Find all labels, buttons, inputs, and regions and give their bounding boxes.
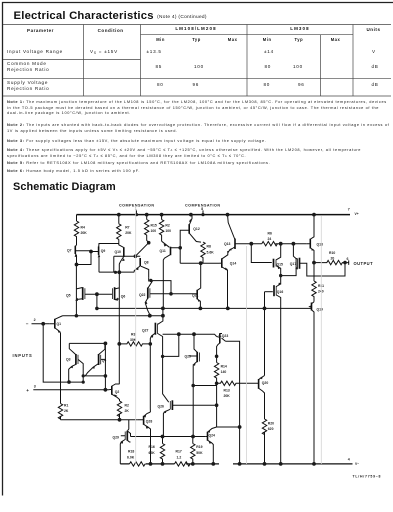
resistor R3 (119, 333, 150, 347)
svg-text:1.2: 1.2 (177, 455, 182, 459)
svg-text:R18: R18 (128, 450, 134, 454)
wire Q18 emitter node to R10 (314, 262, 321, 264)
svg-text:20K: 20K (224, 394, 231, 398)
svg-text:620: 620 (268, 427, 274, 431)
junctions mid distribution wire (161, 332, 196, 387)
compensation label 2 (185, 203, 220, 207)
resistor R7 (117, 215, 132, 248)
svg-text:Q18: Q18 (317, 243, 324, 247)
svg-text:Q23: Q23 (222, 334, 229, 338)
wire R6 to Q18 base (275, 243, 306, 245)
transistor Q12 (180, 215, 201, 264)
wire Q22 collector tie (162, 308, 164, 315)
node wire Q5 Q6 bases to second stage (96, 294, 98, 308)
resistor R4 (74, 215, 87, 245)
svg-text:2: 2 (34, 318, 36, 322)
resistor R10 (321, 251, 348, 265)
wire Q3 Q4 bottom cross (83, 375, 105, 377)
svg-text:Q27: Q27 (142, 329, 149, 333)
pin 6 output terminal (347, 257, 374, 266)
transistor Q26 (158, 400, 217, 436)
svg-text:R13: R13 (224, 389, 230, 393)
long bias wire (97, 307, 307, 309)
resistor R16 (149, 437, 165, 464)
wire cross drop (163, 334, 179, 356)
svg-text:Q20: Q20 (262, 381, 269, 385)
svg-text:7: 7 (348, 208, 350, 212)
transistor Q6 (112, 287, 125, 301)
svg-text:Q17: Q17 (290, 262, 297, 266)
svg-text:Q16: Q16 (277, 290, 284, 294)
svg-text:R4: R4 (81, 226, 85, 230)
pin 7 V+ terminal (348, 208, 359, 216)
junctions input stage (75, 241, 182, 282)
section title (13, 181, 116, 193)
junctions on Q13 base wire (249, 242, 295, 246)
svg-text:R14: R14 (221, 365, 227, 369)
svg-text:240: 240 (318, 290, 324, 294)
wire lower tie (63, 315, 164, 317)
wire Q3 Q4 top (69, 342, 105, 344)
svg-text:Q21: Q21 (192, 293, 199, 297)
svg-text:50K: 50K (196, 451, 203, 455)
wire emitter resistor bus (61, 419, 138, 421)
transistor Q10 (114, 247, 140, 272)
resistor R18 in rail (127, 450, 145, 467)
resistor R6 (262, 232, 278, 246)
svg-text:Q6: Q6 (121, 295, 126, 299)
svg-text:Q11: Q11 (160, 249, 166, 253)
transistor Q13 (224, 215, 238, 253)
junctions protection network (82, 342, 153, 384)
transistor Q11 (160, 241, 181, 308)
svg-text:V+: V+ (355, 212, 359, 216)
junction node Q14 base R8 (199, 261, 203, 265)
junctions Q5 Q6 base tie (75, 274, 283, 318)
wire Q7 Q9 base tie (77, 252, 92, 265)
svg-text:R6: R6 (268, 232, 272, 236)
wire Q4 node to pin3 (104, 343, 106, 389)
transistor Q5 (66, 265, 112, 316)
wire Q20 collector chain up (264, 292, 266, 376)
transistor Q9 (91, 244, 119, 273)
svg-text:R16: R16 (149, 445, 155, 449)
wire Q16 base (265, 291, 273, 293)
compensation pin 8 (201, 207, 203, 214)
compensation pin 1 (135, 207, 137, 214)
notes (7, 99, 393, 116)
transistor Q20 (256, 376, 268, 420)
svg-text:Q9: Q9 (101, 249, 106, 253)
transistor Q16 (274, 283, 283, 464)
transistor Q23 (217, 333, 229, 356)
svg-text:2K: 2K (64, 409, 69, 413)
transistor Q18 (307, 215, 323, 263)
transistor Q19 (307, 302, 323, 464)
resistor R11 (312, 263, 324, 302)
svg-text:100: 100 (165, 229, 171, 233)
svg-text:INPUTS: INPUTS (13, 353, 33, 358)
resistor R13 (217, 381, 256, 398)
compensation label 1 (119, 203, 154, 207)
junctions on lower tie wire (148, 314, 165, 318)
junctions on V+ rail (117, 213, 316, 217)
long vertical Q2 collector / Q6 / Q10 node (118, 272, 120, 384)
svg-text:TL/H/7759–8: TL/H/7759–8 (353, 475, 382, 479)
pin 4 V- terminal (348, 458, 359, 467)
svg-text:COMPENSATION: COMPENSATION (185, 203, 220, 207)
table row 1 (7, 49, 63, 55)
svg-text:Q29: Q29 (113, 435, 120, 439)
junction output node (312, 261, 347, 265)
svg-text:R20: R20 (268, 422, 274, 426)
svg-text:24: 24 (268, 237, 272, 241)
svg-text:5.6K: 5.6K (207, 251, 215, 255)
V- rail (120, 463, 352, 465)
junction pin2 node (41, 322, 70, 384)
svg-text:4: 4 (348, 458, 350, 462)
svg-text:Q14: Q14 (230, 262, 237, 266)
svg-text:Q12: Q12 (193, 227, 200, 231)
transistor Q3 (66, 343, 83, 382)
svg-text:R19: R19 (196, 445, 202, 449)
resistor R2b (117, 401, 129, 420)
svg-text:+: + (26, 388, 29, 393)
wire mid distribution (163, 334, 217, 336)
V+ rail (77, 214, 351, 216)
svg-text:Q5: Q5 (66, 294, 71, 298)
document code (353, 475, 382, 479)
svg-text:R2: R2 (125, 404, 129, 408)
svg-text:Q15: Q15 (277, 262, 284, 266)
wire Q9 emitter to Q2 collector node (99, 271, 134, 273)
svg-text:Q7: Q7 (67, 249, 72, 253)
scan streak artifacts (136, 207, 322, 464)
svg-text:8: 8 (201, 207, 203, 211)
svg-text:20K: 20K (125, 231, 132, 235)
resistor R1 (58, 404, 69, 420)
svg-text:20: 20 (331, 257, 335, 261)
resistor R19 (191, 437, 203, 464)
svg-text:20K: 20K (81, 231, 88, 235)
transistor Q4 (85, 343, 106, 376)
svg-text:6: 6 (347, 257, 349, 261)
junctions on bias wire (95, 307, 266, 311)
transistor Q22 (139, 278, 195, 316)
svg-text:Q13: Q13 (224, 242, 231, 246)
junctions on V- rail (149, 462, 316, 466)
resistor R14 (214, 356, 227, 383)
resistor R20 (262, 419, 274, 464)
transistor Q2 (110, 384, 120, 401)
junctions current mirror network (161, 355, 242, 439)
svg-text:R1: R1 (64, 404, 68, 408)
svg-text:3: 3 (34, 384, 36, 388)
transistor Q15 (251, 244, 283, 285)
svg-text:6.0K: 6.0K (127, 455, 135, 459)
svg-text:140: 140 (221, 370, 227, 374)
transistor Q21 (192, 263, 201, 308)
svg-text:Q19: Q19 (317, 308, 324, 312)
transistor Q14 (220, 251, 237, 308)
svg-text:Q10: Q10 (115, 250, 122, 254)
svg-text:R7: R7 (125, 226, 129, 230)
svg-text:R17: R17 (176, 450, 182, 454)
svg-text:R10: R10 (329, 251, 335, 255)
resistor R17 in rail (175, 450, 191, 467)
svg-text:Q25: Q25 (185, 355, 192, 359)
svg-text:Q28: Q28 (146, 420, 153, 424)
table row 3 (7, 80, 49, 93)
svg-text:Q2: Q2 (115, 390, 120, 394)
svg-text:62K: 62K (149, 451, 156, 455)
svg-text:Q24: Q24 (209, 433, 216, 437)
wire Q23 base to right vertical (226, 341, 240, 464)
svg-text:2K: 2K (125, 409, 130, 413)
transistor Q8 (134, 243, 149, 278)
svg-text:Q8: Q8 (144, 261, 149, 265)
wire Q13 to R6 node (238, 243, 262, 245)
wire current mirror bus (131, 436, 206, 438)
svg-text:R15: R15 (151, 224, 157, 228)
resistor R8 (201, 242, 214, 263)
transistor Q24 (205, 427, 216, 464)
svg-text:OUTPUT: OUTPUT (354, 261, 374, 266)
svg-text:R3: R3 (131, 333, 135, 337)
transistor Q27 (142, 316, 169, 403)
resistor R15 (145, 215, 157, 243)
transistor Q28 (137, 412, 152, 464)
junction pin3 node (104, 388, 122, 422)
transistor Q1 (50, 316, 63, 404)
svg-text:R8: R8 (207, 245, 211, 249)
svg-text:Q22: Q22 (139, 293, 146, 297)
svg-text:COMPENSATION: COMPENSATION (119, 203, 154, 207)
table row 2 (7, 61, 49, 74)
wire Q29 right lead joins bus (130, 434, 132, 437)
wire Q14 base (180, 262, 219, 264)
transistor Q25 (185, 334, 217, 436)
title (14, 10, 207, 22)
svg-text:100: 100 (151, 229, 157, 233)
resistor R2 (159, 215, 171, 242)
svg-text:Q3: Q3 (66, 358, 71, 362)
svg-text:Q1: Q1 (57, 322, 62, 326)
transistor Q7 (67, 245, 91, 265)
input pin 2 (26, 318, 50, 327)
wire R14 R13 vertical down (216, 383, 218, 427)
wire pin2 down to protection (43, 324, 83, 382)
table header row (0, 28, 83, 33)
svg-text:R2: R2 (165, 224, 169, 228)
svg-text:Q26: Q26 (158, 405, 165, 409)
transistor Q29 (113, 420, 132, 464)
svg-text:V−: V− (355, 462, 359, 466)
input pin 3 (26, 384, 109, 393)
wire Q27 emitter chain down (149, 344, 151, 412)
transistor Q17 (281, 244, 345, 276)
wire Q24 collector bus (217, 426, 240, 428)
svg-text:−: − (26, 321, 29, 326)
INPUTS label (13, 353, 33, 358)
